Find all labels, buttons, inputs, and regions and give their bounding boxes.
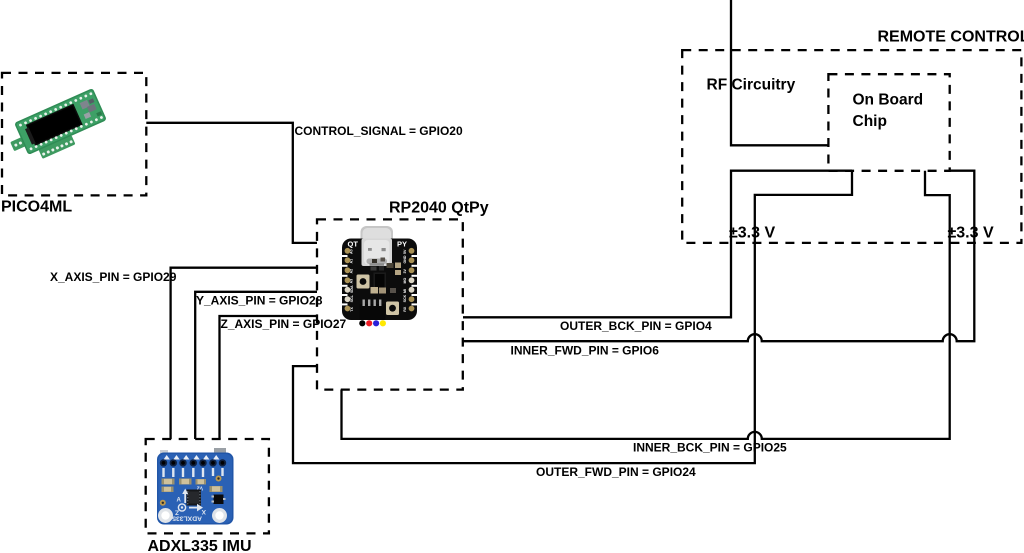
- svg-text:GND: GND: [403, 255, 407, 263]
- qtpy caps middle: [371, 287, 379, 294]
- qtpy pcb body: [342, 239, 417, 321]
- svg-text:RP2040 QtPy: RP2040 QtPy: [389, 199, 489, 216]
- dashed box On Board Chip: [828, 74, 949, 171]
- svg-text:CONTROL_SIGNAL = GPIO20: CONTROL_SIGNAL = GPIO20: [295, 124, 463, 138]
- svg-text:INNER_FWD_PIN = GPIO6: INNER_FWD_PIN = GPIO6: [511, 343, 660, 357]
- svg-text:RF Circuitry: RF Circuitry: [707, 76, 796, 93]
- dashed box RP2040 QtPy: [317, 219, 463, 389]
- wire OUTER_BCK GPIO4 qtpy to remote: [463, 171, 852, 318]
- qtpy usb lower part over pcb: [362, 239, 393, 267]
- svg-text:Chip: Chip: [853, 113, 887, 130]
- qtpy button left: [357, 275, 370, 289]
- qtpy pin labels left: [350, 249, 355, 311]
- qtpy right pads: [409, 248, 415, 311]
- dashed box REMOTE CONTROL: [682, 50, 1021, 243]
- svg-text:SDA: SDA: [350, 285, 354, 293]
- adxl top hole row: [160, 459, 226, 466]
- svg-text:ADXL335 IMU: ADXL335 IMU: [148, 538, 252, 553]
- svg-text:PICO4ML: PICO4ML: [1, 199, 72, 216]
- svg-text:REMOTE CONTROL: REMOTE CONTROL: [878, 28, 1024, 45]
- hole rows: [19, 92, 104, 151]
- svg-text:PY: PY: [397, 240, 407, 249]
- svg-text:TX: TX: [350, 307, 354, 312]
- adxl X arrow: [189, 504, 206, 515]
- adxl silk triangles top: [164, 455, 220, 460]
- svg-text:SCK: SCK: [403, 294, 407, 302]
- adxl center ic: [187, 490, 202, 506]
- svg-text:OUTER_BCK_PIN = GPIO4: OUTER_BCK_PIN = GPIO4: [560, 319, 712, 333]
- svg-text:3V: 3V: [403, 269, 407, 274]
- pico4ml header strip left: [10, 131, 40, 152]
- components right end: [80, 100, 90, 110]
- qtpy pad gaps left: [341, 255, 419, 305]
- svg-text:QT: QT: [348, 240, 359, 249]
- qtpy small components cluster: [371, 258, 402, 276]
- qtpy bottom colored dots: [359, 320, 365, 326]
- svg-text:A3: A3: [350, 279, 354, 284]
- board image ADXL335: [157, 448, 234, 525]
- board image PICO4ML: [10, 88, 107, 159]
- svg-text:Y_AXIS_PIN = GPIO28: Y_AXIS_PIN = GPIO28: [196, 294, 323, 308]
- qtpy left pads: [345, 248, 351, 311]
- qtpy button right: [386, 302, 399, 316]
- svg-text:A2: A2: [350, 269, 354, 274]
- adxl A arrow up: [177, 489, 189, 504]
- svg-text:A0: A0: [350, 249, 354, 254]
- svg-text:MO: MO: [403, 278, 407, 284]
- svg-text:5V: 5V: [403, 249, 407, 254]
- wire OUTER_FWD GPIO24 remote to qtpy: [293, 171, 852, 463]
- svg-text:On Board: On Board: [853, 92, 924, 109]
- adxl mounting hole left: [158, 508, 173, 523]
- svg-text:Z_AXIS_PIN = GPIO27: Z_AXIS_PIN = GPIO27: [221, 317, 347, 331]
- wire INNER_FWD GPIO6 qtpy to remote, hops at 754.8 and 949.7: [463, 171, 974, 342]
- adxl mounting hole right: [212, 508, 227, 523]
- adxl sot chip right: [214, 495, 224, 505]
- adxl pcb body: [157, 453, 234, 525]
- pico4ml header strip bottom: [39, 135, 76, 159]
- adxl gray part behind top edge: [214, 448, 226, 455]
- dashed box ADXL335: [146, 439, 269, 533]
- adxl pin label bars: [162, 468, 223, 477]
- svg-text:±3.3 V: ±3.3 V: [948, 225, 994, 242]
- svg-text:A: A: [177, 498, 182, 504]
- adxl caps row 1: [162, 479, 207, 485]
- qtpy bottom-left chip with pins: [360, 304, 386, 320]
- svg-text:A1: A1: [350, 259, 354, 264]
- svg-text:RX: RX: [403, 306, 407, 312]
- adxl caps row 2: [162, 487, 174, 493]
- svg-text:X: X: [201, 508, 206, 515]
- svg-text:X_AXIS_PIN = GPIO29: X_AXIS_PIN = GPIO29: [50, 270, 177, 284]
- wire Y_AXIS qtpy to adxl: [195, 292, 317, 439]
- svg-text:ADXL335: ADXL335: [172, 515, 202, 522]
- svg-text:MI: MI: [403, 289, 407, 293]
- wire X_AXIS qtpy to adxl: [171, 268, 317, 439]
- wire INNER_BCK GPIO25 remote to qtpy, hop at 754.8: [342, 171, 950, 439]
- qtpy usb-c connector: [361, 226, 394, 266]
- pico4ml main board: [14, 88, 107, 155]
- svg-text:±3.3 V: ±3.3 V: [729, 225, 775, 242]
- board image RP2040 QtPy: [341, 226, 419, 326]
- svg-text:INNER_BCK_PIN = GPIO25: INNER_BCK_PIN = GPIO25: [633, 440, 787, 454]
- svg-text:SCL: SCL: [350, 294, 354, 302]
- qtpy main ic: [374, 273, 387, 291]
- display: [26, 104, 83, 146]
- dashed box PICO4ML: [2, 73, 146, 195]
- wire RF antenna vertical into On Board Chip: [731, 0, 828, 145]
- svg-text:OUTER_FWD_PIN = GPIO24: OUTER_FWD_PIN = GPIO24: [536, 465, 696, 479]
- adxl gold via right: [216, 476, 222, 482]
- wire CONTROL_SIGNAL pico to qtpy: [146, 123, 317, 243]
- qtpy pin labels right: [403, 249, 407, 312]
- wire Z_AXIS qtpy to adxl: [220, 316, 318, 439]
- adxl gold via bottom-left: [160, 500, 166, 506]
